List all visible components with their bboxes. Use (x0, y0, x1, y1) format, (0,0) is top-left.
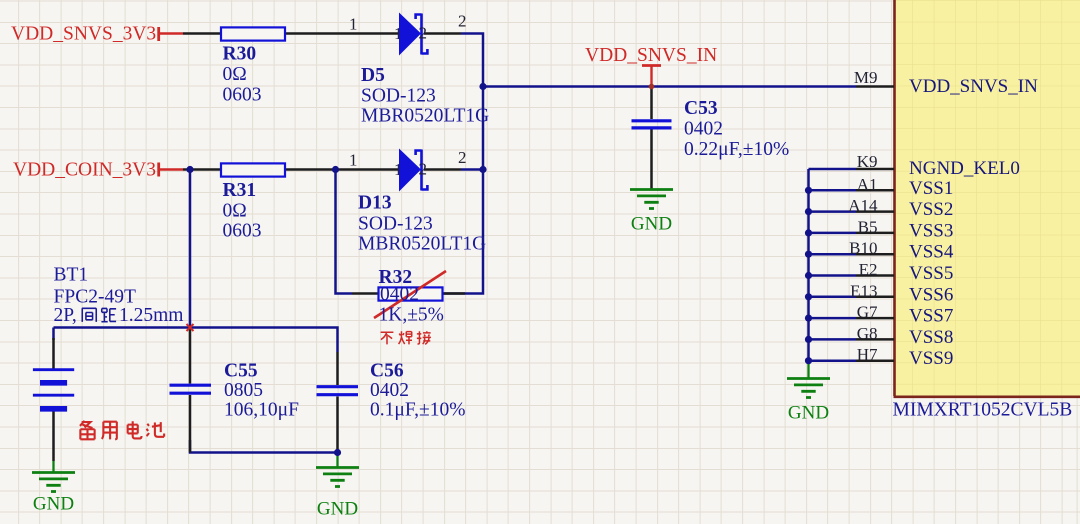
svg-text:GND: GND (631, 214, 672, 235)
svg-text:1.25mm: 1.25mm (119, 305, 183, 326)
svg-text:MIMXRT1052CVL5B: MIMXRT1052CVL5B (893, 400, 1073, 421)
svg-text:106,10μF: 106,10μF (224, 400, 299, 421)
svg-text:SOD-123: SOD-123 (361, 85, 436, 106)
svg-text:VSS6: VSS6 (909, 284, 953, 305)
svg-text:A14: A14 (848, 196, 878, 215)
svg-text:C55: C55 (224, 361, 258, 382)
svg-text:0603: 0603 (223, 84, 262, 105)
svg-text:G7: G7 (857, 303, 878, 322)
svg-text:R31: R31 (223, 180, 257, 201)
svg-text:VDD_SNVS_3V3: VDD_SNVS_3V3 (11, 23, 156, 44)
svg-text:2: 2 (419, 24, 428, 43)
svg-text:C56: C56 (370, 361, 404, 382)
svg-text:R30: R30 (223, 44, 257, 65)
svg-text:0.22μF,±10%: 0.22μF,±10% (684, 139, 789, 160)
svg-text:VSS1: VSS1 (909, 178, 953, 199)
svg-text:GND: GND (317, 499, 358, 520)
svg-text:E2: E2 (859, 260, 878, 279)
svg-text:VSS4: VSS4 (909, 242, 954, 263)
svg-text:SOD-123: SOD-123 (358, 213, 433, 234)
svg-text:VDD_COIN_3V3: VDD_COIN_3V3 (13, 159, 156, 180)
svg-text:2: 2 (419, 160, 428, 179)
svg-text:B10: B10 (849, 239, 877, 258)
svg-text:2: 2 (458, 148, 467, 167)
svg-text:MBR0520LT1G: MBR0520LT1G (358, 234, 486, 255)
svg-text:VDD_SNVS_IN: VDD_SNVS_IN (909, 76, 1038, 97)
svg-text:K9: K9 (857, 152, 878, 171)
svg-text:0402: 0402 (684, 119, 723, 140)
svg-text:1K,±5%: 1K,±5% (379, 305, 444, 326)
svg-text:D13: D13 (358, 193, 392, 214)
svg-text:0Ω: 0Ω (223, 64, 247, 85)
svg-text:GND: GND (33, 494, 74, 515)
svg-text:D5: D5 (361, 65, 385, 86)
svg-text:VSS2: VSS2 (909, 199, 953, 220)
svg-text:BT1: BT1 (54, 265, 89, 286)
svg-text:G8: G8 (857, 324, 878, 343)
svg-text:1: 1 (349, 150, 358, 169)
svg-text:VSS3: VSS3 (909, 220, 953, 241)
svg-text:E13: E13 (850, 281, 877, 300)
svg-text:VSS8: VSS8 (909, 327, 953, 348)
svg-text:1: 1 (349, 15, 358, 34)
svg-text:VSS5: VSS5 (909, 263, 953, 284)
svg-text:GND: GND (788, 403, 829, 424)
svg-text:2: 2 (458, 12, 467, 31)
svg-text:H7: H7 (857, 345, 878, 364)
svg-text:0402: 0402 (380, 284, 419, 305)
svg-text:VDD_SNVS_IN: VDD_SNVS_IN (585, 45, 717, 66)
svg-text:2P,: 2P, (54, 305, 77, 326)
svg-text:B5: B5 (858, 217, 878, 236)
svg-text:A1: A1 (857, 175, 878, 194)
svg-text:VSS9: VSS9 (909, 348, 953, 369)
svg-text:0402: 0402 (370, 380, 409, 401)
svg-text:MBR0520LT1G: MBR0520LT1G (361, 106, 489, 127)
svg-text:M9: M9 (854, 68, 878, 87)
svg-text:0603: 0603 (223, 221, 262, 242)
svg-text:NGND_KEL0: NGND_KEL0 (909, 158, 1020, 179)
svg-text:0Ω: 0Ω (223, 200, 247, 221)
svg-text:0805: 0805 (224, 380, 263, 401)
svg-text:C53: C53 (684, 98, 718, 119)
svg-text:0.1μF,±10%: 0.1μF,±10% (370, 400, 465, 421)
svg-text:VSS7: VSS7 (909, 306, 953, 327)
